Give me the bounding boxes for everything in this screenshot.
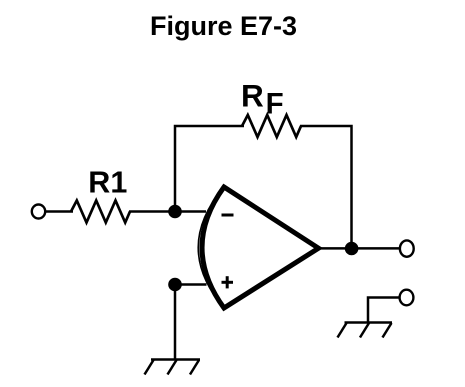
resistor RF	[242, 115, 301, 137]
wire output	[318, 247, 400, 250]
input terminal circle	[32, 205, 45, 219]
wire R1 to inverting node	[129, 210, 206, 213]
svg-text:R: R	[241, 77, 264, 113]
wire feedback left vertical and top horizontal	[175, 126, 244, 212]
terminal circle lower right	[400, 290, 414, 306]
svg-text:Figure E7-3: Figure E7-3	[150, 11, 297, 41]
output terminal circle	[400, 240, 414, 256]
svg-text:R1: R1	[88, 166, 127, 200]
wire input terminal to R1	[45, 210, 73, 213]
wire noninverting to ground	[174, 285, 177, 361]
minus symbol inverting input	[222, 214, 234, 217]
node dot output	[345, 242, 359, 256]
op-amp U1 triangle	[202, 187, 319, 308]
wire to noninverting input	[175, 283, 207, 286]
node dot noninverting input	[168, 278, 182, 292]
wire RF to output node	[300, 126, 352, 250]
ground right	[338, 323, 393, 338]
plus symbol noninverting input	[222, 281, 234, 284]
svg-text:F: F	[266, 88, 284, 121]
op-amp U1 back thin arc	[198, 187, 224, 308]
ground left	[145, 360, 201, 375]
node dot inverting input	[168, 205, 182, 219]
wire lower right terminal to ground	[368, 298, 399, 324]
resistor R1	[71, 201, 130, 223]
